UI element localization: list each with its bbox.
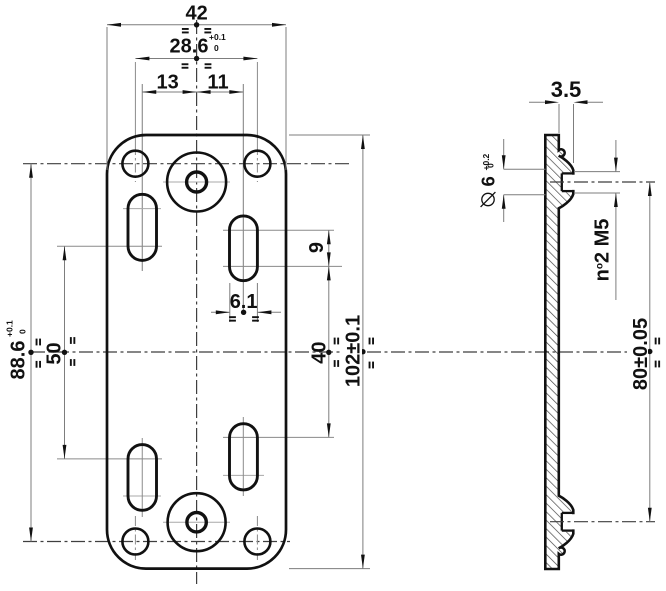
svg-text:0: 0 [18, 329, 28, 334]
dimension 9 (slot length) [328, 230, 330, 266]
28.6 extension right (solid) [256, 62, 258, 146]
dimension 80 ±0.05 [649, 182, 651, 522]
right hole center vertical dashdot [256, 146, 258, 182]
corner hole top-left [122, 151, 148, 177]
dimension 13 (left slot to centerline) [142, 91, 243, 93]
dimension 102 ±0.1 (plate height) [289, 134, 370, 136]
slot bottom-left [128, 445, 157, 511]
dimension 6.1 (slot width) [229, 283, 231, 322]
bottom boss outer circle [168, 493, 226, 551]
top boss tapped hole [187, 172, 207, 192]
front view vertical centerline [196, 20, 198, 584]
svg-text:102±0.1: 102±0.1 [343, 315, 365, 387]
TR slot upper arc crosshair / 9 ext [223, 229, 334, 231]
svg-text:+0.1: +0.1 [209, 32, 226, 42]
svg-text:no2 M5: no2 M5 [592, 219, 614, 282]
svg-text:13: 13 [156, 72, 178, 94]
dimension 42 (plate width) [106, 27, 108, 170]
svg-text:80±0.05: 80±0.05 [630, 318, 652, 390]
top hole-row centerline [23, 163, 350, 165]
dimension 28.6 +0.1/0 (hole spacing) [135, 58, 257, 60]
left hole center vertical dashdot [134, 146, 136, 182]
BR slot lower arc crosshair [223, 474, 264, 476]
svg-text:6: 6 [478, 176, 499, 186]
M5 tapped recess, bottom [562, 512, 575, 514]
top circle horizontal crosshair [163, 181, 230, 183]
BL slot vertical crosshair [141, 438, 143, 517]
dimension 88.6 +0.1/0 (vertical hole spacing) [30, 164, 32, 542]
top boss outer circle [167, 153, 226, 212]
dimension 3.5 (boss offset) [558, 104, 560, 133]
callout n°2 M5 [574, 171, 620, 173]
bottom-right hole center vertical [256, 516, 258, 560]
svg-text:0: 0 [214, 43, 219, 53]
28.6 extension left (solid) [134, 62, 136, 146]
dimension Ø6 +0.2/0 [504, 168, 546, 170]
section view profile with hatching [545, 135, 573, 569]
slot top-right [230, 216, 258, 281]
M5 tapped recess, top [562, 172, 575, 174]
bottom hole-row centerline [23, 541, 290, 543]
svg-text:50: 50 [44, 342, 66, 364]
11-dim extension through right slot [242, 84, 244, 311]
bottom-left hole center vertical [134, 516, 136, 560]
corner hole bottom-left [122, 529, 148, 555]
svg-text:3.5: 3.5 [551, 77, 582, 102]
BR slot vertical crosshair [242, 417, 244, 496]
main horizontal centerline y=352 [31, 351, 655, 353]
bottom circle horizontal crosshair [163, 521, 230, 523]
svg-text:9: 9 [306, 242, 328, 253]
dimension 40 (slot rows) [328, 266, 330, 437]
TR slot lower arc crosshair / 9-40 ext [223, 265, 342, 267]
BL slot upper arc crosshair / 50 ext [57, 458, 162, 460]
slot bottom-right [230, 424, 258, 490]
top hole centerline to 80-dim [550, 181, 655, 183]
bottom hole centerline to 80-dim [550, 521, 655, 523]
corner hole bottom-right [244, 529, 270, 555]
TL slot upper arc crosshair [123, 208, 161, 210]
TL slot lower arc crosshair / 50 ext [57, 245, 162, 247]
bottom boss tapped hole [187, 513, 206, 532]
diameter symbol [482, 193, 494, 205]
corner hole top-right [244, 151, 270, 177]
svg-text:40: 40 [309, 341, 331, 363]
13-dim extension through left slot [141, 84, 143, 271]
plate outline (front view) [107, 135, 286, 569]
svg-text:6.1: 6.1 [230, 291, 258, 313]
svg-text:+0.1: +0.1 [5, 320, 15, 337]
svg-text:28.6: 28.6 [170, 36, 209, 58]
dimension 11 (centerline to right slot) [197, 90, 211, 94]
slot top-left [128, 194, 157, 260]
svg-text:0: 0 [486, 163, 496, 168]
svg-text:11: 11 [207, 72, 228, 94]
BL slot lower arc crosshair [123, 495, 161, 497]
BR slot upper arc crosshair / 40 ext [223, 436, 334, 438]
dimension 50 (slot row spacing) [64, 246, 66, 459]
svg-text:42: 42 [185, 3, 207, 25]
svg-text:88.6: 88.6 [8, 341, 30, 380]
